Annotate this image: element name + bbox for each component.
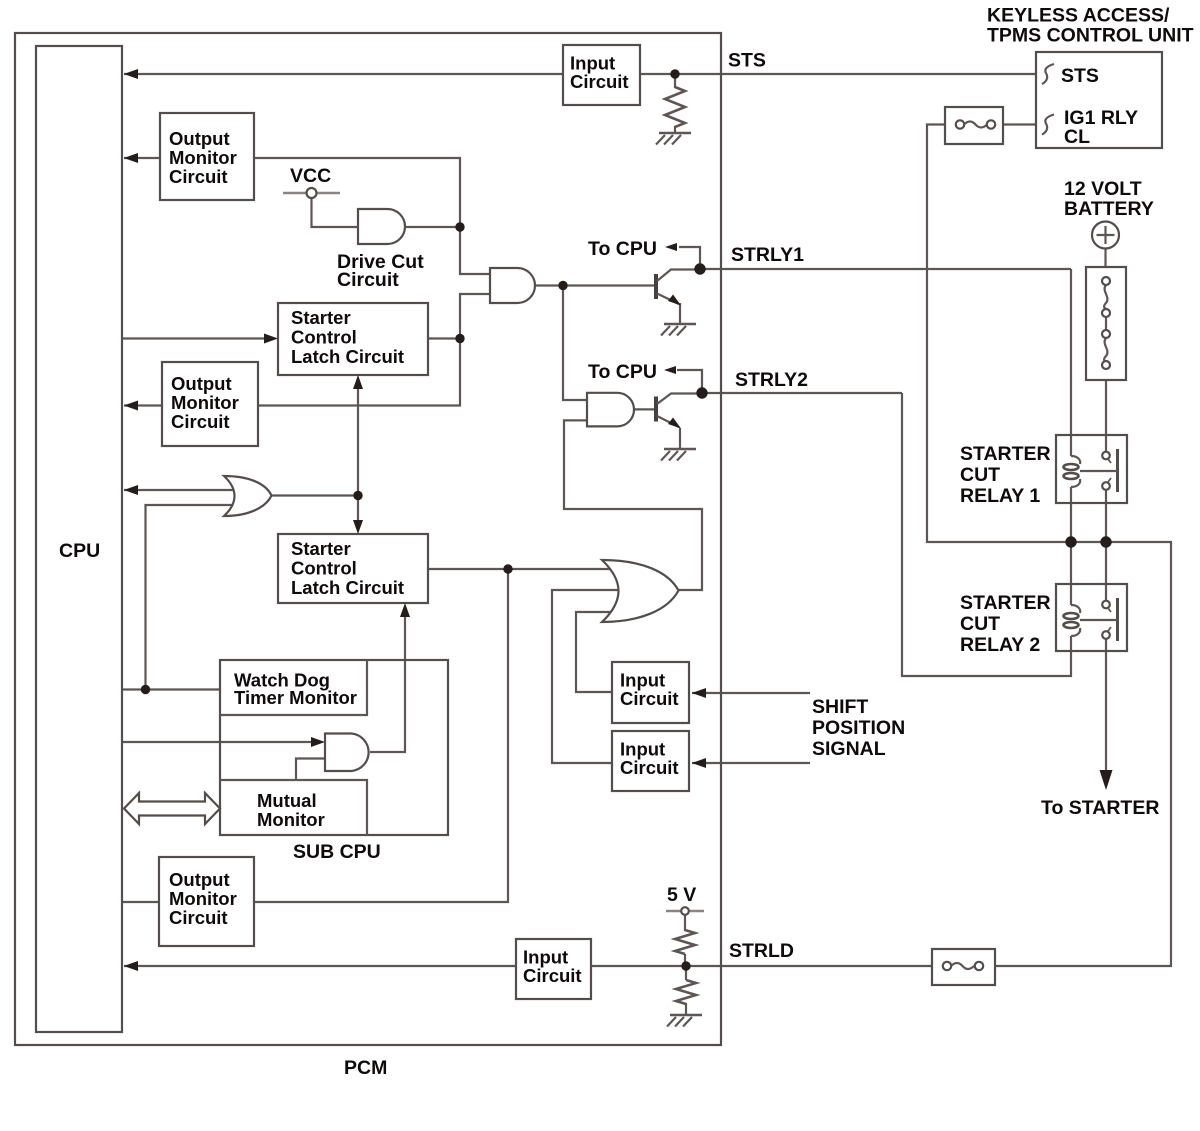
fuse IG1 terminal circles [956, 120, 964, 128]
wire relay1 contact to rail node [1105, 490, 1107, 542]
svg-text:Circuit: Circuit [570, 71, 629, 92]
wire OMC1 to CPU [124, 157, 160, 159]
arrowhead shift signal 1 [692, 688, 706, 698]
wire To CPU 1 [679, 247, 700, 269]
arrowhead STS into CPU [124, 69, 138, 79]
OR gate U4 (to CPU) [224, 476, 272, 516]
svg-text:Circuit: Circuit [620, 688, 679, 709]
wire 5V pullup [684, 915, 686, 931]
VCC symbol [283, 192, 340, 195]
SUB CPU AND gate [325, 734, 369, 772]
arrowhead OMC2 into CPU [124, 401, 138, 411]
svg-text:TPMS CONTROL UNIT: TPMS CONTROL UNIT [987, 25, 1194, 47]
wire OR2 lower input from watchdog line [146, 505, 241, 690]
junction node OR2 out [353, 491, 362, 500]
ignition switch squiggle 1 [1104, 285, 1107, 309]
svg-text:Monitor: Monitor [169, 888, 237, 909]
wire CPU to SCLC1 [122, 337, 266, 339]
wire relay2 coil to STRLY2 loop [902, 393, 1071, 676]
wire AND2 output to Q1 base [535, 284, 656, 286]
svg-text:Control: Control [291, 327, 357, 348]
svg-text:To STARTER: To STARTER [1041, 797, 1159, 819]
svg-text:STARTER: STARTER [960, 443, 1051, 465]
Input Circuit box (STRLD) [516, 939, 591, 999]
svg-text:Starter: Starter [291, 307, 351, 328]
ground Q2 [661, 449, 696, 461]
svg-text:STRLY2: STRLY2 [735, 369, 808, 391]
svg-text:POSITION: POSITION [812, 717, 905, 739]
junction node drive cut [455, 222, 464, 231]
wire rail node to relay2 coil [1070, 542, 1072, 605]
wire node to AND3 upper input [563, 286, 587, 401]
Watch Dog Timer Monitor box [220, 660, 367, 715]
svg-text:BATTERY: BATTERY [1064, 198, 1154, 220]
svg-text:SHIFT: SHIFT [812, 696, 868, 718]
wire OMC2 to CPU [124, 404, 162, 406]
svg-text:VCC: VCC [290, 165, 331, 187]
svg-text:Circuit: Circuit [620, 757, 679, 778]
double arrow CPU-SUBCPU [124, 793, 220, 824]
Input Circuit box (shift 1) [612, 662, 689, 723]
wire STS from Input Circuit to KEYLESS unit [640, 73, 1036, 75]
wire Q1 collector node to STRLY1 [700, 268, 1071, 270]
starter cut relay 1 box [1056, 435, 1127, 503]
drive cut AND gate U1 [358, 209, 405, 244]
resistor STRLD pulldown [676, 980, 696, 1004]
svg-text:Timer Monitor: Timer Monitor [234, 687, 357, 708]
svg-text:CUT: CUT [960, 613, 1000, 635]
wire SCLC2 output to OR3 [428, 568, 630, 570]
ground STRLD [667, 1015, 702, 1027]
KEYLESS ACCESS/TPMS CONTROL UNIT box [1036, 52, 1162, 148]
arrowhead up into SCLC2 from subcpu [400, 603, 410, 617]
relay1 contact [1116, 449, 1119, 492]
junction node STRLY2 [696, 387, 707, 398]
junction node SCLC2 out [503, 564, 512, 573]
wire relay2 contact to starter [1105, 639, 1107, 772]
Starter Control Latch Circuit box 1 [278, 303, 428, 375]
wire input circuit S2 to OR3 [552, 590, 630, 763]
ground Q1 [661, 324, 696, 336]
wire switch to relay1 contact [1105, 369, 1107, 452]
wire Q1 emitter to ground [679, 303, 681, 324]
ignition switch squiggle 2 [1104, 338, 1107, 362]
svg-text:STS: STS [728, 50, 766, 72]
wire OR3 output loop to AND3 lower input [564, 420, 702, 590]
CPU box [36, 46, 122, 1032]
wire latch interconnect vertical [357, 379, 359, 530]
wire rail node to relay2 contact [1105, 542, 1107, 601]
wire STS from CPU to Input Circuit [124, 73, 563, 75]
wire mutual monitor to SUBCPU AND lower input [296, 759, 325, 781]
wire SUBCPU AND output to SCLC2 [370, 607, 405, 752]
battery plus terminal [1092, 222, 1119, 249]
svg-text:Circuit: Circuit [523, 965, 582, 986]
junction node STRLY1 driver [558, 281, 567, 290]
arrowhead up into SCLC1 [353, 375, 363, 389]
svg-text:SIGNAL: SIGNAL [812, 738, 886, 760]
fuse STRLD squiggle [951, 963, 974, 969]
svg-text:STARTER: STARTER [960, 592, 1051, 614]
wire AND3 output to Q2 base [634, 408, 656, 410]
svg-text:Control: Control [291, 558, 357, 579]
svg-text:CUT: CUT [960, 464, 1000, 486]
arrowhead To CPU 1 [665, 243, 677, 251]
relay2 contact [1116, 598, 1119, 641]
wire pulldown resistor to ground [685, 1003, 687, 1015]
resistor STS pulldown [665, 87, 685, 127]
wire OR2 upper input to CPU [124, 489, 240, 491]
svg-text:Circuit: Circuit [171, 411, 230, 432]
svg-text:Output: Output [171, 373, 232, 394]
wire OR2 output to latch bus [271, 494, 358, 496]
wire VCC to drive cut AND [312, 196, 359, 227]
wire STRLD node to pulldown resistor [685, 966, 687, 980]
wire CPU to watchdog [122, 688, 220, 690]
Starter Control Latch Circuit box 2 [278, 534, 428, 603]
relay2 coil [1071, 605, 1080, 613]
svg-text:PCM: PCM [344, 1057, 387, 1079]
svg-text:CL: CL [1064, 126, 1090, 148]
svg-text:12 VOLT: 12 VOLT [1064, 178, 1142, 200]
arrowhead OR2 into CPU [124, 485, 138, 495]
svg-text:STRLD: STRLD [729, 940, 794, 962]
wire IG1 from keyless to fuse [1003, 123, 1036, 125]
wire relay1 coil to rail node [1070, 487, 1072, 542]
wire OMC3 stub to CPU [122, 901, 160, 903]
wire To CPU 2 [677, 370, 702, 393]
arrowhead shift signal 2 [692, 758, 706, 768]
svg-text:STS: STS [1061, 65, 1099, 87]
svg-text:Output: Output [169, 869, 230, 890]
arrowhead CPU into SCLC1 [264, 334, 278, 344]
Input Circuit box (shift 2) [612, 731, 689, 791]
PCM outer box [15, 33, 721, 1045]
wire pullup resistor to STRLD node [684, 954, 686, 966]
Input Circuit box (STS) [563, 45, 640, 105]
wire drive cut AND output to node [405, 226, 460, 228]
fuse IG1 squiggle [964, 122, 987, 128]
wire SCLC1 output to node [428, 337, 460, 339]
svg-text:RELAY 2: RELAY 2 [960, 634, 1040, 656]
wire STRLD from input circuit to fuse [591, 965, 932, 967]
wire OMC1 output to vertical bus [254, 158, 490, 274]
wire node to AND2 lower input and OMC2 [162, 294, 490, 406]
svg-text:To CPU: To CPU [588, 238, 657, 260]
ignition switch contact circles [1102, 277, 1110, 285]
transistor Q2 [656, 394, 701, 429]
connector curl IG1 [1042, 115, 1054, 135]
svg-text:To CPU: To CPU [588, 361, 657, 383]
arrowhead CPU into SUBCPU AND [311, 737, 325, 747]
wire battery to switch [1104, 249, 1106, 268]
junction node watchdog line [141, 685, 150, 694]
ignition switch connector box [1086, 267, 1126, 380]
svg-text:Latch Circuit: Latch Circuit [291, 346, 404, 367]
wire STS pulldown resistor [674, 74, 676, 88]
svg-text:Monitor: Monitor [257, 809, 325, 830]
junction node STRLY1 [694, 263, 705, 274]
wire STRLD from CPU to input circuit [124, 965, 516, 967]
To STARTER arrowhead [1100, 770, 1113, 790]
svg-text:Output: Output [169, 128, 230, 149]
resistor 5V pullup [675, 930, 695, 954]
wire input circuit S1 to OR3 [576, 612, 630, 692]
svg-text:Latch Circuit: Latch Circuit [291, 577, 404, 598]
svg-text:RELAY 1: RELAY 1 [960, 485, 1040, 507]
relay1 coil [1071, 456, 1080, 464]
svg-text:5 V: 5 V [667, 884, 696, 906]
svg-text:Circuit: Circuit [169, 166, 228, 187]
wire IG1 fuse to supply rail [927, 125, 1171, 967]
5V symbol [666, 910, 704, 913]
svg-text:CPU: CPU [59, 540, 100, 562]
arrowhead STRLD into CPU [124, 961, 138, 971]
wire shift position signal 1 [692, 692, 810, 694]
ignition switch link [1105, 317, 1107, 330]
svg-text:KEYLESS ACCESS/: KEYLESS ACCESS/ [987, 5, 1170, 27]
Output Monitor Circuit box 2 [162, 362, 258, 446]
svg-text:SUB CPU: SUB CPU [293, 841, 381, 863]
ground STS [656, 133, 691, 145]
svg-text:Monitor: Monitor [171, 392, 239, 413]
svg-text:Starter: Starter [291, 538, 351, 559]
connector curl STS [1042, 64, 1054, 84]
junction node STS [670, 69, 679, 78]
wire shift position signal 2 [692, 762, 810, 764]
AND gate U3 [587, 393, 634, 427]
wires-layer [122, 74, 1171, 1015]
svg-text:Monitor: Monitor [169, 147, 237, 168]
wire CPU to SUBCPU AND [122, 741, 311, 743]
wire STS resistor to ground [674, 126, 676, 133]
svg-text:STRLY1: STRLY1 [731, 244, 804, 266]
transistor Q1 [656, 270, 699, 306]
fuse STRLD terminal circles [943, 962, 951, 970]
junction node rail contact [1100, 536, 1111, 547]
fuse STRLD box [932, 949, 995, 985]
arrowhead down into SCLC2 [353, 520, 363, 534]
svg-text:Mutual: Mutual [257, 790, 317, 811]
arrowhead OMC1 into CPU [124, 153, 138, 163]
wire OMC3 output to OR3 node [254, 569, 508, 902]
Output Monitor Circuit box 1 [160, 113, 254, 200]
junction node SCLC1 out [455, 334, 464, 343]
wire Q2 emitter to ground [679, 428, 681, 449]
wire STRLY1 down to relay1 coil [1070, 269, 1072, 456]
Mutual Monitor box [220, 780, 367, 835]
fuse IG1 box [945, 107, 1003, 144]
AND gate U2 [490, 268, 535, 303]
wire Q2 collector node to STRLY2 [702, 392, 902, 394]
arrowhead To CPU 2 [664, 366, 676, 374]
OR gate U5 (big) [602, 560, 679, 622]
SUB CPU box [220, 660, 448, 835]
starter cut relay 2 box [1056, 584, 1127, 651]
svg-text:Circuit: Circuit [337, 269, 399, 291]
svg-text:Circuit: Circuit [169, 907, 228, 928]
junction node STRLD [681, 961, 690, 970]
Output Monitor Circuit box 3 [159, 857, 254, 946]
junction node rail coil [1065, 536, 1076, 547]
